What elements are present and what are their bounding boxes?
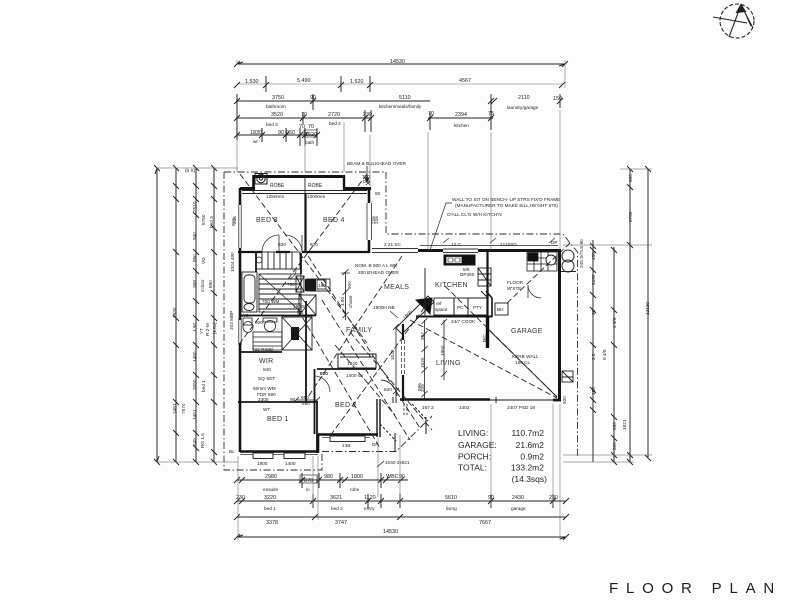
- left dimension block: [154, 165, 238, 465]
- svg-text:820: 820: [384, 387, 392, 392]
- svg-text:KITCHEN: KITCHEN: [435, 282, 468, 289]
- kitchen bench + sink: [444, 255, 475, 265]
- stairs lower flight: [253, 332, 282, 350]
- svg-text:1040 2x921: 1040 2x921: [385, 460, 410, 465]
- bed3/bed4 divider wall: [304, 193, 306, 252]
- svg-text:WIR: WIR: [259, 358, 274, 365]
- svg-text:90: 90: [310, 95, 316, 101]
- svg-text:950: 950: [286, 130, 295, 136]
- svg-text:150: 150: [591, 387, 596, 395]
- wir/bed1 wall: [238, 401, 318, 403]
- porch: [380, 404, 427, 452]
- bulkhead note wall: [424, 268, 426, 317]
- wall right bed4: [367, 188, 372, 253]
- exhaust fan box: [255, 174, 267, 185]
- svg-text:890: 890: [208, 280, 213, 288]
- svg-text:W'STE: W'STE: [507, 286, 521, 291]
- svg-text:1800: 1800: [351, 474, 363, 480]
- robe band: [242, 176, 367, 194]
- svg-text:WALL TO SIT ON BENCH- UP STRS: WALL TO SIT ON BENCH- UP STRS FIX'D FRAM…: [452, 197, 560, 202]
- svg-text:2300: 2300: [258, 397, 269, 402]
- svg-text:245 S/TLS 90: 245 S/TLS 90: [579, 239, 584, 268]
- svg-text:ROBE: ROBE: [308, 183, 323, 189]
- svg-text:980: 980: [324, 474, 333, 480]
- right dim texts: [579, 174, 650, 450]
- svg-text:1950: 1950: [440, 345, 445, 356]
- eave dash-dot right: [224, 172, 578, 458]
- svg-text:90: 90: [278, 130, 284, 136]
- svg-text:24/7 COOK: 24/7 COOK: [451, 319, 476, 324]
- staircase lower flight: [259, 274, 301, 312]
- svg-text:NOM. B 900 A L WII: NOM. B 900 A L WII: [355, 263, 397, 268]
- svg-text:1.520: 1.520: [350, 79, 364, 85]
- svg-text:450: 450: [591, 252, 596, 260]
- svg-text:SQ SET: SQ SET: [258, 376, 275, 381]
- svg-text:LIVING: LIVING: [436, 360, 461, 367]
- meals/kitchen island diagonal: [396, 296, 434, 334]
- svg-text:(22 RISE): (22 RISE): [253, 347, 274, 352]
- svg-text:70: 70: [299, 124, 305, 130]
- svg-text:entry: entry: [364, 506, 375, 511]
- svg-text:living: living: [446, 506, 457, 511]
- svg-text:1350: 1350: [290, 327, 301, 332]
- bath tub: [242, 272, 257, 312]
- svg-text:ensuite: ensuite: [263, 487, 279, 492]
- laundry block hatched: [527, 252, 557, 271]
- svg-text:1800: 1800: [257, 461, 268, 466]
- svg-text:5190: 5190: [591, 274, 596, 285]
- svg-text:3040: 3040: [390, 349, 395, 360]
- svg-text:7570: 7570: [181, 403, 186, 414]
- bed3 bed4 south wall: [238, 251, 369, 253]
- hall dim chain: [341, 269, 350, 320]
- top dimension overall 14530: [234, 61, 568, 67]
- robe box bed2: [338, 354, 376, 368]
- svg-text:(6 X): (6 X): [185, 168, 196, 173]
- svg-text:Bc: Bc: [229, 449, 235, 454]
- svg-text:space: space: [435, 307, 448, 312]
- svg-text:1451: 1451: [192, 409, 197, 420]
- svg-text:O'ALL CL'G W/H KITCH'N: O'ALL CL'G W/H KITCH'N: [447, 212, 502, 217]
- svg-text:216: 216: [232, 216, 237, 224]
- svg-text:4 5/8: 4 5/8: [612, 317, 617, 328]
- svg-text:12130: 12130: [645, 302, 650, 315]
- svg-text:90: 90: [375, 191, 381, 196]
- svg-text:1821: 1821: [622, 419, 627, 430]
- svg-text:WBC: WBC: [386, 474, 399, 480]
- svg-text:3750: 3750: [272, 95, 284, 101]
- svg-text:75: 75: [488, 111, 494, 117]
- svg-text:150 CL: 150 CL: [515, 360, 531, 365]
- wc ensuite: [243, 318, 277, 333]
- svg-text:900: 900: [347, 281, 352, 289]
- svg-text:1.90: 1.90: [340, 296, 345, 306]
- svg-text:2510: 2510: [192, 201, 197, 212]
- svg-text:2 21 SC: 2 21 SC: [384, 242, 402, 247]
- svg-text:bed 3: bed 3: [266, 122, 278, 127]
- top dimension row rooms 3: [234, 128, 320, 146]
- kitchen lower bench row: [434, 291, 488, 315]
- bottom dimension row A: [234, 473, 408, 488]
- svg-text:NB: NB: [297, 310, 304, 315]
- svg-text:750: 750: [287, 282, 295, 287]
- svg-text:2110: 2110: [518, 95, 530, 101]
- svg-text:bed 3: bed 3: [209, 216, 214, 228]
- svg-text:0.9m2: 0.9m2: [520, 452, 544, 462]
- linen black boxes: [305, 279, 316, 291]
- svg-text:1.90: 1.90: [192, 322, 197, 332]
- svg-text:110.7m2: 110.7m2: [512, 428, 545, 438]
- svg-text:1400: 1400: [285, 461, 296, 466]
- ensuite south wall: [240, 351, 282, 353]
- svg-text:BH: BH: [497, 307, 504, 312]
- svg-text:133.2m2: 133.2m2: [511, 463, 544, 473]
- svg-text:PTY: PTY: [473, 305, 483, 310]
- wall step bed1/bed2: [317, 435, 320, 453]
- svg-text:940: 940: [192, 232, 197, 240]
- svg-text:robe: robe: [350, 487, 360, 492]
- svg-text:216: 216: [371, 216, 376, 224]
- svg-text:kitchen/meals/family: kitchen/meals/family: [379, 104, 422, 109]
- wall garage right: [558, 250, 561, 401]
- bathroom door: [287, 270, 296, 279]
- north arrow: [713, 4, 754, 38]
- hall wall: [301, 253, 306, 402]
- linen cupboards: [296, 276, 330, 292]
- svg-text:896: 896: [417, 383, 422, 391]
- ensuite shower: [282, 317, 312, 350]
- living opening dim: [393, 324, 399, 397]
- svg-text:940: 940: [263, 367, 271, 372]
- svg-text:7451: 7451: [172, 403, 177, 414]
- svg-text:545: 545: [192, 438, 197, 446]
- svg-text:laundry/garage: laundry/garage: [507, 105, 539, 110]
- svg-text:1120: 1120: [364, 495, 376, 501]
- svg-text:230: 230: [236, 495, 245, 501]
- svg-text:WT: WT: [263, 407, 270, 412]
- kitchen right wall: [486, 291, 492, 317]
- svg-text:3220: 3220: [264, 495, 276, 501]
- svg-text:in: in: [306, 487, 310, 492]
- svg-text:3378: 3378: [266, 520, 278, 526]
- svg-text:VG: VG: [201, 257, 206, 264]
- svg-text:368: 368: [192, 280, 197, 288]
- svg-text:150: 150: [553, 96, 562, 102]
- svg-text:50mm WM: 50mm WM: [253, 386, 276, 391]
- svg-text:820: 820: [278, 242, 286, 247]
- svg-text:KERB WALL: KERB WALL: [512, 354, 539, 359]
- svg-text:5.490: 5.490: [297, 78, 311, 84]
- extension lines bottom: [237, 60, 565, 540]
- svg-text:3520: 3520: [271, 112, 283, 118]
- svg-text:bath: bath: [305, 140, 315, 145]
- svg-text:YT: YT: [199, 328, 204, 334]
- svg-text:LIVING:: LIVING:: [458, 428, 488, 438]
- svg-text:GARAGE: GARAGE: [511, 328, 543, 335]
- svg-text:7930: 7930: [172, 307, 177, 318]
- wall left: [239, 188, 241, 452]
- svg-text:1830: 1830: [250, 130, 262, 136]
- svg-text:850: 850: [301, 395, 309, 400]
- svg-text:700 WM: 700 WM: [262, 299, 280, 304]
- svg-text:367: 367: [420, 332, 425, 340]
- svg-text:wr: wr: [253, 139, 258, 144]
- top dimension row windows: [234, 76, 565, 92]
- svg-text:70: 70: [308, 124, 314, 130]
- svg-text:2115SD: 2115SD: [500, 242, 517, 247]
- svg-text:1640: 1640: [347, 361, 358, 366]
- svg-text:167 2: 167 2: [422, 405, 434, 410]
- top dimension row rooms 1: [234, 94, 563, 140]
- svg-text:BEAM & BULKHEAD OVER: BEAM & BULKHEAD OVER: [347, 161, 406, 166]
- bed2 door: [314, 376, 330, 392]
- svg-text:BED 1: BED 1: [267, 416, 289, 423]
- entry door: [381, 380, 407, 416]
- svg-text:230: 230: [549, 495, 558, 501]
- svg-text:850: 850: [192, 254, 197, 262]
- wall living front: [393, 397, 561, 403]
- svg-text:920: 920: [562, 396, 567, 404]
- svg-text:3050: 3050: [192, 379, 197, 390]
- svg-text:B/C: B/C: [482, 334, 487, 342]
- svg-text:90: 90: [591, 309, 596, 315]
- svg-text:TOTAL:: TOTAL:: [458, 463, 487, 473]
- family/living wall: [402, 324, 405, 401]
- right dimension block: [563, 166, 652, 465]
- svg-text:200 B'HEAD OVER: 200 B'HEAD OVER: [358, 270, 399, 275]
- kitchen head dim line: [420, 238, 558, 246]
- svg-text:[1.0x]: [1.0x]: [212, 323, 217, 334]
- svg-text:14530: 14530: [383, 529, 398, 535]
- bed1 right wall: [316, 402, 318, 453]
- bed4 door arc: [285, 235, 302, 252]
- svg-text:garage: garage: [511, 506, 526, 511]
- powder wc hatched: [299, 295, 316, 315]
- svg-text:WC: WC: [241, 313, 249, 318]
- svg-text:21.6m2: 21.6m2: [516, 440, 545, 450]
- svg-text:bed 4: bed 4: [329, 121, 341, 126]
- svg-text:850: 850: [612, 422, 617, 430]
- water tanks outside: [561, 250, 576, 272]
- top dimension row rooms 2: [234, 110, 494, 132]
- svg-text:kitchen: kitchen: [454, 123, 469, 128]
- svg-text:ref: ref: [436, 301, 442, 306]
- svg-text:7667: 7667: [479, 520, 491, 526]
- svg-text:5 4/8: 5 4/8: [602, 349, 607, 360]
- svg-text:5110: 5110: [399, 95, 411, 101]
- svg-text:1250mm: 1250mm: [266, 194, 284, 199]
- svg-text:s'door: s'door: [200, 279, 205, 292]
- svg-text:1900H NB: 1900H NB: [373, 305, 395, 310]
- svg-text:1200mm: 1200mm: [307, 194, 325, 199]
- fridge: [478, 268, 491, 286]
- svg-text:FLOOR PLAN: FLOOR PLAN: [609, 580, 782, 597]
- svg-text:bed 1: bed 1: [201, 380, 206, 392]
- svg-text:600: 600: [612, 442, 617, 450]
- svg-text:chase: chase: [348, 295, 353, 308]
- svg-text:1400 sq: 1400 sq: [346, 373, 363, 378]
- bathroom wall: [240, 252, 316, 316]
- svg-text:203 MBP: 203 MBP: [229, 311, 234, 330]
- svg-text:1800: 1800: [402, 309, 413, 320]
- svg-text:2.5: 2.5: [591, 353, 596, 360]
- bottom dimension row C: [234, 514, 569, 520]
- svg-text:870: 870: [304, 478, 313, 484]
- hall mini dim: [294, 397, 320, 402]
- hws unit: [562, 371, 573, 382]
- bed3 door arc: [262, 235, 279, 252]
- bottom dimension row D: [234, 534, 569, 540]
- svg-text:2430: 2430: [512, 495, 524, 501]
- svg-text:3747: 3747: [335, 520, 347, 526]
- zone diagonals family: [298, 256, 432, 448]
- svg-text:1900H: 1900H: [293, 304, 307, 309]
- svg-text:230: 230: [363, 112, 372, 118]
- wall top bed3/bed4: [240, 175, 371, 189]
- zone diagonals bed34: [240, 174, 367, 343]
- svg-text:2760: 2760: [628, 211, 633, 222]
- svg-text:820: 820: [310, 242, 318, 247]
- wall entry side: [377, 399, 380, 437]
- svg-text:bed 2: bed 2: [331, 506, 343, 511]
- zone diagonals living garage: [410, 243, 570, 398]
- svg-text:RG 1.5: RG 1.5: [200, 433, 205, 448]
- svg-text:DP: DP: [551, 240, 558, 245]
- svg-text:5610: 5610: [445, 495, 457, 501]
- svg-text:(MANUFACTURER TO MAKE SILL HE': (MANUFACTURER TO MAKE SILL HE'GHT 970): [455, 203, 558, 208]
- svg-text:FLOOR: FLOOR: [507, 280, 524, 285]
- svg-text:820: 820: [320, 371, 328, 376]
- svg-text:MEALS: MEALS: [384, 284, 409, 291]
- laundry door arc: [528, 285, 541, 298]
- svg-text:1520: 1520: [420, 357, 425, 368]
- svg-text:13B: 13B: [342, 443, 350, 448]
- svg-text:PORCH:: PORCH:: [458, 452, 491, 462]
- BH box: [495, 303, 508, 315]
- wall kitchen top: [372, 249, 561, 253]
- svg-text:bathroom: bathroom: [266, 104, 286, 109]
- bed2 top wall: [317, 368, 376, 370]
- living side dim chain: [422, 318, 448, 400]
- svg-text:bed 1: bed 1: [264, 506, 276, 511]
- svg-text:R.2-M: R.2-M: [205, 323, 210, 336]
- svg-text:12 C: 12 C: [451, 242, 462, 247]
- svg-text:3621: 3621: [330, 495, 342, 501]
- svg-text:1460: 1460: [192, 351, 197, 362]
- svg-text:DP450: DP450: [460, 272, 475, 277]
- kitchen south wall: [416, 316, 492, 318]
- kitchen right wall: [486, 251, 488, 316]
- svg-text:70: 70: [301, 112, 307, 118]
- svg-text:1004 490: 1004 490: [230, 252, 235, 272]
- wall bottom bed1: [240, 452, 318, 459]
- svg-text:2394: 2394: [455, 112, 467, 118]
- staircase upper flight: [256, 252, 300, 269]
- svg-text:2407 PSD 18: 2407 PSD 18: [507, 405, 535, 410]
- svg-text:5750: 5750: [201, 214, 206, 225]
- svg-text:2980: 2980: [265, 474, 277, 480]
- svg-text:600: 600: [628, 174, 633, 182]
- svg-text:(14.3sqs): (14.3sqs): [512, 474, 548, 484]
- svg-text:4567: 4567: [459, 78, 471, 84]
- garage nib wall: [486, 316, 489, 348]
- bottom dimension row B: [234, 494, 569, 508]
- svg-text:70: 70: [428, 111, 434, 117]
- svg-text:1520: 1520: [305, 132, 317, 138]
- svg-text:14530: 14530: [390, 59, 405, 65]
- svg-text:1.530: 1.530: [245, 79, 259, 85]
- eave dash-dot left: [224, 172, 432, 470]
- svg-text:1402: 1402: [459, 405, 470, 410]
- svg-text:890: 890: [302, 401, 310, 406]
- wall bottom bed2: [318, 435, 378, 442]
- svg-text:PC: PC: [457, 305, 464, 310]
- bed2 left wall: [314, 369, 316, 434]
- svg-text:2720: 2720: [328, 112, 340, 118]
- svg-text:ROBE: ROBE: [270, 183, 285, 189]
